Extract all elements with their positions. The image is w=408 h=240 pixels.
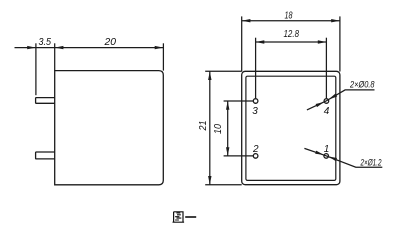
- dimension 18 line: [242, 20, 340, 22]
- dimension 12.8 line: [256, 41, 327, 43]
- relay body outline (side view): [55, 71, 164, 185]
- leader 2x0.8 arrow upper-right: [328, 94, 337, 100]
- caption glyph tu (drawn): [173, 212, 185, 222]
- wire dimension line top-left (3.5 and 20 shared line): [15, 47, 164, 49]
- extension line 21 top: [205, 70, 242, 72]
- arrow 21 top: [208, 71, 211, 80]
- extension line 10 bottom (to pin 2): [224, 155, 254, 157]
- svg-text:3: 3: [252, 106, 258, 117]
- arrow tip at 3.5 right / 20 left: [55, 46, 64, 49]
- pin 3 hole: [253, 99, 258, 104]
- arrow 21 bottom: [208, 176, 211, 185]
- leader 2x0.8 line through pin 4: [307, 90, 375, 110]
- leader 2x0.8 arrow lower-left: [316, 102, 324, 107]
- svg-text:21: 21: [198, 121, 209, 132]
- arrow 10 bottom: [226, 147, 229, 156]
- bottom-view inner box: [246, 76, 336, 180]
- extension line 12.8 right down to pin 4: [325, 38, 327, 98]
- pin 4 hole: [324, 99, 329, 104]
- svg-text:3.5: 3.5: [39, 37, 52, 48]
- arrow 18 right: [331, 19, 340, 22]
- pin 1 hole: [324, 154, 329, 159]
- extension line 21 bottom: [205, 184, 242, 186]
- svg-text:20: 20: [103, 37, 116, 48]
- arrow 12.8 left: [256, 40, 265, 43]
- svg-text:2×Ø1.2: 2×Ø1.2: [360, 157, 382, 168]
- extension line B (body left): [54, 43, 56, 70]
- dimension 21 line: [209, 71, 211, 184]
- arrow 12.8 right: [318, 40, 327, 43]
- pin lower (side view): [36, 152, 55, 159]
- arrow tip at 20 right: [155, 46, 164, 49]
- extension line 10 top (to pin 3): [224, 100, 254, 102]
- svg-text:10: 10: [213, 124, 224, 134]
- leader 2x1.2 line through pin 1: [304, 148, 382, 167]
- caption glyph yi (drawn): [185, 216, 196, 218]
- bottom-view outer box: [242, 71, 340, 184]
- extension line A (pin end): [35, 43, 37, 95]
- svg-text:18: 18: [285, 11, 293, 22]
- extension line 18 right: [339, 16, 341, 71]
- svg-text:12.8: 12.8: [284, 29, 300, 40]
- arrow 10 top: [226, 101, 229, 110]
- svg-text:4: 4: [324, 106, 330, 117]
- arrow 18 left: [242, 19, 251, 22]
- pin upper (side view): [36, 98, 55, 104]
- extension line 12.8 left down to pin 3: [255, 38, 257, 98]
- pin 2 hole: [253, 154, 258, 159]
- extension line C (body right): [162, 43, 164, 70]
- leader 2x1.2 arrow upper-left: [315, 151, 324, 155]
- leader 2x1.2 arrow lower-right: [328, 156, 337, 161]
- svg-text:2×Ø0.8: 2×Ø0.8: [349, 79, 375, 90]
- svg-text:1: 1: [324, 144, 330, 155]
- dimension 10 line: [227, 101, 229, 156]
- arrow tip at 3.5 left: [27, 46, 36, 49]
- extension line 18 left: [241, 16, 243, 71]
- svg-text:2: 2: [252, 144, 259, 155]
